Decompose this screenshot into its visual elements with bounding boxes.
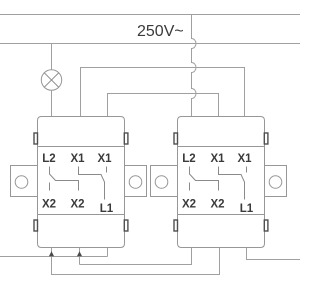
arrow junction at S1 X2 mid (77, 251, 82, 256)
wire H2 run to S2 (80, 248, 192, 265)
S2 bottom cover clip right (264, 220, 268, 231)
svg-text:L1: L1 (100, 203, 114, 215)
wire traveler W2 between switch tops (81, 68, 245, 117)
S1 left ear hole (15, 176, 28, 189)
S2 top cover (178, 117, 265, 147)
wire supply rail L top (0, 14, 300, 16)
wire bottom bus H1 (0, 256, 108, 258)
wire switched feed vertical with crossover hops (192, 15, 197, 117)
svg-text:X2: X2 (210, 199, 224, 211)
wire lamp feed upper (51, 44, 53, 71)
wire traveler W3 between switch tops (108, 94, 219, 117)
svg-text:L2: L2 (182, 153, 195, 165)
S1 pole 1 contact (50, 167, 79, 191)
S1 bottom cover clip right (124, 220, 128, 231)
S2 pole 2 contact (219, 167, 247, 200)
wire drop and H3 run to S2 (52, 248, 220, 275)
S1 body (38, 147, 125, 215)
switch S1 (11, 117, 147, 248)
S1 top cover clip right (124, 133, 128, 144)
S2 bottom cover clip left (174, 220, 178, 231)
svg-text:X1: X1 (70, 153, 85, 165)
S1 pole 2 contact (79, 167, 107, 200)
wire supply rail N second (0, 43, 300, 45)
S2 top cover clip right (264, 133, 268, 144)
S2 bottom cover (178, 215, 265, 248)
svg-text:X2: X2 (70, 199, 84, 211)
arrow junction at S1 X2 left (49, 251, 54, 256)
S1 bottom cover (38, 215, 125, 248)
lamp E1 (41, 70, 61, 90)
switch S2 (151, 117, 287, 248)
S1 left ear (11, 166, 38, 197)
svg-text:X1: X1 (237, 153, 252, 165)
svg-text:X1: X1 (210, 153, 225, 165)
S2 right ear (265, 166, 287, 197)
S1 right ear hole (129, 176, 142, 189)
svg-text:X2: X2 (182, 199, 196, 211)
wire S2 L1 exit right (247, 248, 301, 260)
S2 right ear hole (269, 176, 282, 189)
S1 top cover clip left (34, 133, 38, 144)
svg-text:L2: L2 (42, 153, 55, 165)
svg-text:X2: X2 (42, 199, 56, 211)
S2 body (178, 147, 265, 215)
S1 top cover (38, 117, 125, 147)
svg-text:L1: L1 (240, 203, 254, 215)
S2 pole 1 contact (190, 167, 219, 191)
wire stub S1 X2 left (51, 248, 53, 257)
svg-text:X1: X1 (97, 153, 112, 165)
S2 top cover clip left (174, 133, 178, 144)
wire stub S1 X2 mid (79, 248, 81, 265)
wire stub S1 L1 (107, 248, 109, 257)
wire lamp to switch S1 (51, 90, 53, 116)
S1 bottom cover clip left (34, 220, 38, 231)
svg-text:250V~: 250V~ (137, 23, 184, 40)
S1 right ear (125, 166, 147, 197)
S2 left ear hole (155, 176, 168, 189)
S2 left ear (151, 166, 178, 197)
